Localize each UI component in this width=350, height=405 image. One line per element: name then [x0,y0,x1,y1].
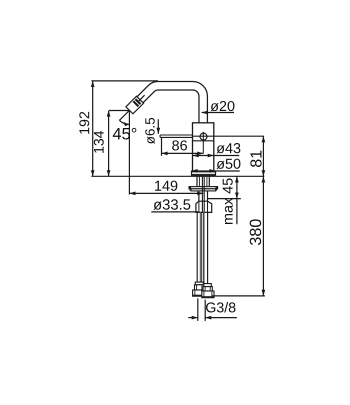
arrow 380 top [262,176,266,182]
base flange top thick edge [192,170,216,172]
right connector hex [203,287,212,291]
label G3/8 [206,302,235,312]
spout tube (riser + top bend + horizontal run + 45 bend) [136,86,203,124]
left hose outer lines [196,212,198,282]
lever rod top line [160,134,192,136]
top extension line y=80.9 [91,80,158,82]
label 81 [250,151,261,167]
washer gasket lower [191,189,216,191]
G3/8 left ext [197,298,199,321]
arrow 380 bottom [262,290,266,296]
body seam [193,140,214,142]
spout tube inner white [135,86,203,125]
pivot vertical line down to 86 dim [202,132,204,154]
right connector nut [202,291,214,298]
45deg annotation arc [119,120,129,124]
arrow 81 top [262,136,266,142]
arrow 192 top [91,81,95,87]
label 380 [250,219,261,245]
washer left end tab [189,187,191,191]
arrow 86 right [197,152,203,156]
right hose outer lines [202,212,204,283]
o50 dim line [192,170,240,172]
label max 45 [223,178,233,224]
tube between washer and nut [198,191,200,201]
o20 leader [202,112,234,114]
washer plate upper [189,187,218,189]
arrow o50 left [192,169,198,173]
lever tip cap [159,135,161,137]
pivot screw circle [200,133,207,140]
copper tails center pair [201,177,203,213]
arrowheads [91,81,265,320]
max45 dim line [236,176,238,224]
arrow 45deg arc end [124,122,130,126]
arrow max45 top [235,176,239,182]
arrow 86 left [162,152,168,156]
o33.5 underline leader [151,211,199,213]
149 dim line [129,192,203,194]
arrow 134 top [107,111,111,117]
washer right end tab [215,187,217,191]
nut inner flats [198,201,200,212]
arrow o43 right [208,154,214,158]
86 left extension [161,138,163,156]
label o50 [217,159,241,169]
arrow o50 right [209,169,215,173]
shank tube below deck [196,177,198,187]
dim line 134 [108,111,110,177]
left G3/8 connector ferrule [195,282,203,285]
arrow o43 left [193,154,199,158]
centerline through body and 81 extension [193,135,265,137]
label 149 [155,181,177,191]
label 134 [94,131,104,153]
base flange O50 [192,171,216,175]
label o20 [211,101,235,111]
lever rod bottom line [160,136,192,138]
left connector hex [195,285,205,290]
base flange dark lower band [191,174,215,177]
vertical ext from aerator tip down to 149 [128,110,130,194]
body cylinder O43 [193,123,214,171]
ext line at aerator level y=110.5 [109,110,130,112]
45deg annotation diagonal [119,111,129,121]
aerator stripe 1 [133,101,138,106]
86 dim line [162,152,204,154]
G3/8 dim left tail [188,317,198,319]
arrow max45 bottom [235,193,239,199]
G3/8 right ext [204,300,206,321]
o43 dim line [193,155,240,157]
arrow 192 bottom [91,170,95,176]
right G3/8 connector ferrule [204,284,212,287]
right hose inner shade line [203,212,205,283]
label 45deg [113,128,137,140]
left connector nut [193,290,207,296]
aerator stripe 2 [135,99,140,104]
label 192 [79,112,89,134]
mounting nut [196,201,212,212]
label o6.5 [145,118,155,144]
81 and 380 dim line [262,136,264,296]
o6.5 leader line [157,119,159,134]
G3/8 dim right tail [205,317,237,319]
arrow o6.5 down [156,128,160,134]
aerator bore line along axis [139,95,145,101]
arrow G3/8 pointing right [192,316,198,320]
arrow o20 left [202,111,208,115]
arrow G3/8 pointing left [205,316,211,320]
shank inner thread lines [198,177,200,187]
arrow 149 left [129,192,135,196]
left hose inner shade line [199,212,201,282]
arrow 81 bottom [262,170,266,176]
max45 bottom ext line [208,198,241,200]
bottom ext line y=295.9 [212,295,265,297]
label o33.5 [153,199,190,210]
dim line 192 [92,81,94,176]
arrow 149 right [197,192,203,196]
arrow 134 bottom [107,170,111,176]
label o43 [217,143,241,153]
deck line [91,175,264,177]
aerator block at 45deg [126,96,144,114]
label 86 [172,140,187,150]
